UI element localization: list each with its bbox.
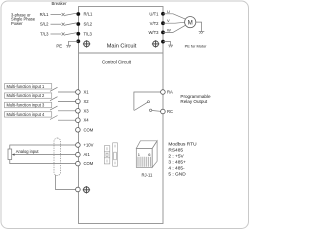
svg-text:RC: RC — [167, 109, 173, 114]
svg-text:X1: X1 — [84, 90, 90, 95]
svg-text:1: 1 — [138, 152, 141, 157]
svg-text:T/L3: T/L3 — [40, 31, 49, 36]
svg-text:6: 6 — [148, 152, 151, 157]
svg-text:V/T2: V/T2 — [150, 21, 160, 26]
svg-text:X2: X2 — [84, 99, 90, 104]
svg-text:U: U — [167, 9, 170, 14]
svg-text:+10V: +10V — [84, 143, 94, 148]
svg-text:Modbus RTU: Modbus RTU — [168, 141, 197, 147]
svg-text:R/L1: R/L1 — [84, 12, 94, 17]
svg-text:Multi-function input 3: Multi-function input 3 — [7, 103, 45, 108]
svg-text:S/L2: S/L2 — [84, 22, 93, 27]
svg-text:RA: RA — [167, 90, 173, 95]
svg-text:R/L1: R/L1 — [40, 12, 50, 17]
svg-text:Relay Output: Relay Output — [180, 99, 208, 104]
svg-text:V: V — [167, 18, 170, 23]
svg-text:S/L2: S/L2 — [40, 22, 49, 27]
svg-text:U/T1: U/T1 — [149, 11, 159, 16]
svg-text:3 : 485+: 3 : 485+ — [168, 159, 186, 165]
svg-text:PE: PE — [56, 44, 62, 49]
svg-text:Analog input: Analog input — [16, 149, 40, 154]
svg-text:Multi-function input 2: Multi-function input 2 — [7, 93, 45, 98]
svg-text:PE for Motor: PE for Motor — [185, 43, 208, 48]
svg-text:W/T3: W/T3 — [148, 30, 159, 35]
svg-text:2 : +5V: 2 : +5V — [168, 153, 184, 159]
svg-text:Multi-function input 1: Multi-function input 1 — [7, 84, 45, 89]
svg-text:Control Circuit: Control Circuit — [102, 60, 132, 65]
svg-text:X4: X4 — [84, 118, 90, 123]
svg-text:COM: COM — [84, 127, 94, 132]
svg-text:RJ-11: RJ-11 — [141, 172, 153, 177]
svg-text:AI1: AI1 — [84, 152, 91, 157]
svg-text:M: M — [188, 20, 193, 26]
svg-text:RS485: RS485 — [168, 147, 183, 153]
svg-text:5 : GND: 5 : GND — [168, 171, 186, 177]
svg-text:COM: COM — [84, 161, 94, 166]
svg-text:X3: X3 — [84, 108, 90, 113]
svg-text:W: W — [167, 27, 171, 32]
svg-text:4 : 485-: 4 : 485- — [168, 165, 185, 171]
svg-text:Multi-function input 4: Multi-function input 4 — [7, 112, 45, 117]
svg-text:Breaker: Breaker — [51, 1, 67, 6]
svg-text:Main Circuit: Main Circuit — [107, 44, 137, 50]
svg-text:Power: Power — [11, 21, 23, 26]
svg-text:T/L3: T/L3 — [84, 31, 93, 36]
